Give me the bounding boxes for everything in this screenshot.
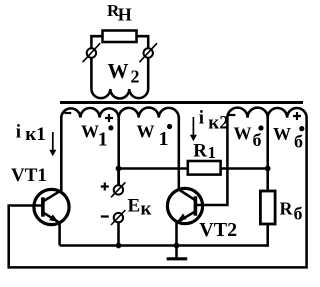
svg-text:R: R — [280, 199, 294, 219]
svg-text:W: W — [234, 124, 252, 144]
svg-text:i: i — [16, 121, 21, 142]
svg-text:W: W — [81, 122, 99, 142]
svg-text:к2: к2 — [208, 112, 228, 133]
svg-text:1: 1 — [159, 128, 169, 150]
svg-text:W: W — [273, 124, 291, 144]
svg-text:VT1: VT1 — [11, 165, 47, 186]
svg-text:R: R — [193, 141, 207, 162]
svg-text:1: 1 — [98, 128, 108, 150]
svg-text:VT2: VT2 — [199, 219, 237, 241]
svg-text:2: 2 — [131, 67, 140, 87]
svg-text:W: W — [137, 122, 155, 142]
svg-text:к1: к1 — [25, 124, 45, 145]
svg-text:1: 1 — [208, 143, 217, 162]
svg-text:б: б — [294, 132, 303, 152]
svg-text:б: б — [294, 204, 303, 224]
svg-text:i: i — [199, 108, 204, 129]
svg-text:Н: Н — [118, 4, 132, 24]
svg-text:E: E — [128, 196, 141, 217]
svg-text:W: W — [108, 59, 129, 83]
svg-text:б: б — [253, 130, 262, 150]
svg-text:к: к — [141, 198, 152, 219]
